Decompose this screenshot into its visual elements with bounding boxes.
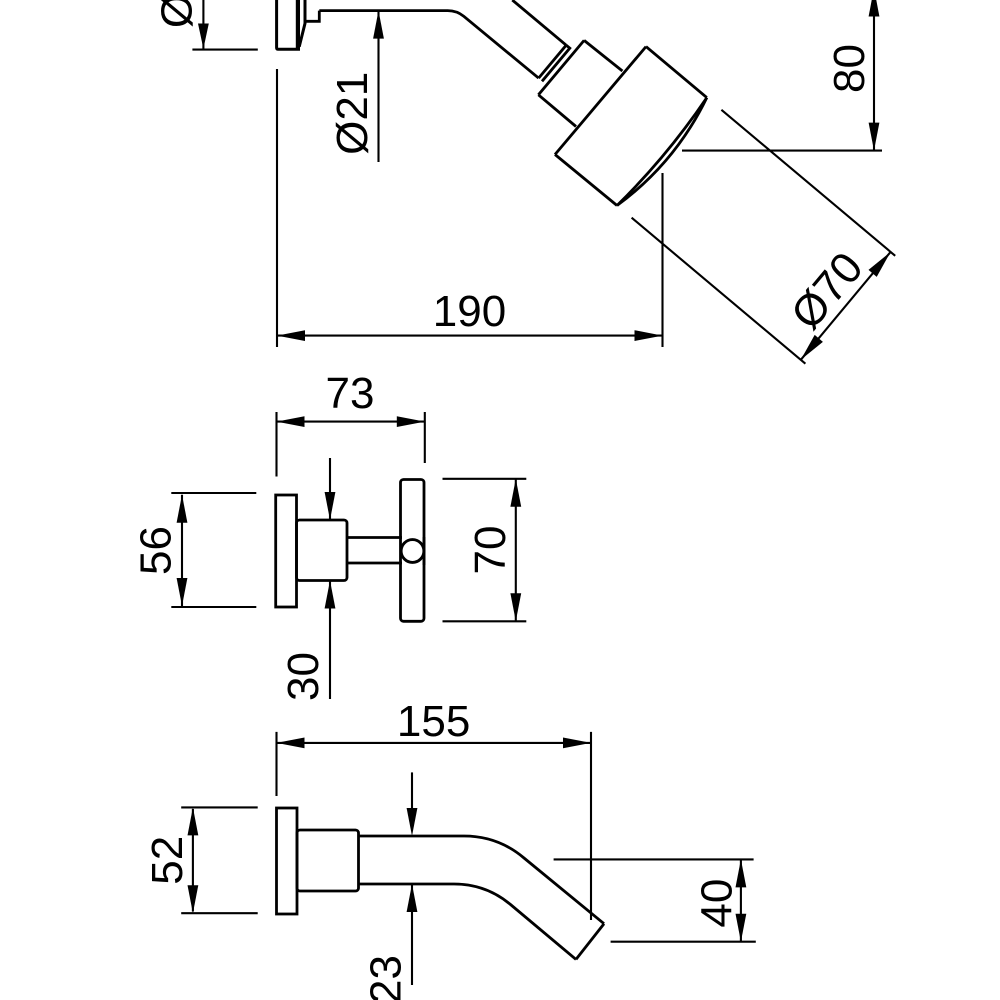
dimension Ø70 (head diameter, diagonal)	[632, 110, 896, 364]
svg-text:80: 80	[825, 44, 874, 93]
svg-text:56: 56	[132, 526, 181, 575]
spout body	[297, 830, 359, 891]
svg-text:52: 52	[143, 836, 192, 885]
flange cone	[299, 0, 319, 47]
dimension 80	[682, 0, 882, 151]
dimension 190	[277, 69, 663, 347]
spout tube	[359, 836, 605, 959]
svg-text:70: 70	[466, 526, 515, 575]
dimension 56	[132, 493, 257, 607]
valve stem	[347, 538, 402, 564]
shower arm tube	[319, 0, 570, 81]
dimension 30	[279, 458, 335, 701]
svg-text:Ø21: Ø21	[328, 72, 377, 155]
valve wall flange	[276, 495, 297, 607]
dimension 40	[554, 859, 756, 941]
dimension 73	[277, 369, 425, 477]
svg-text:40: 40	[693, 879, 742, 928]
valve body	[297, 520, 348, 581]
arm collar / neck faces	[538, 40, 622, 126]
svg-text:23: 23	[362, 955, 411, 1000]
shower head cylinder	[555, 47, 707, 206]
dimension 52	[143, 807, 258, 913]
dimension Ø65 (cut off at top)	[153, 0, 258, 50]
wall flange plate (fig1)	[277, 0, 300, 49]
dimension 70	[443, 479, 527, 622]
svg-text:190: 190	[433, 287, 506, 336]
svg-text:73: 73	[326, 369, 375, 418]
dimension 155	[277, 697, 592, 920]
spout wall flange	[277, 808, 298, 914]
svg-text:30: 30	[279, 652, 328, 701]
dimension Ø21 (arm diameter)	[328, 11, 384, 162]
handle bar	[401, 480, 425, 622]
handle knob circle	[401, 540, 424, 563]
dimension 23	[362, 772, 418, 1000]
svg-text:155: 155	[397, 697, 470, 746]
svg-text:Ø65: Ø65	[153, 0, 202, 28]
handle bar right edge over knob	[423, 537, 426, 565]
